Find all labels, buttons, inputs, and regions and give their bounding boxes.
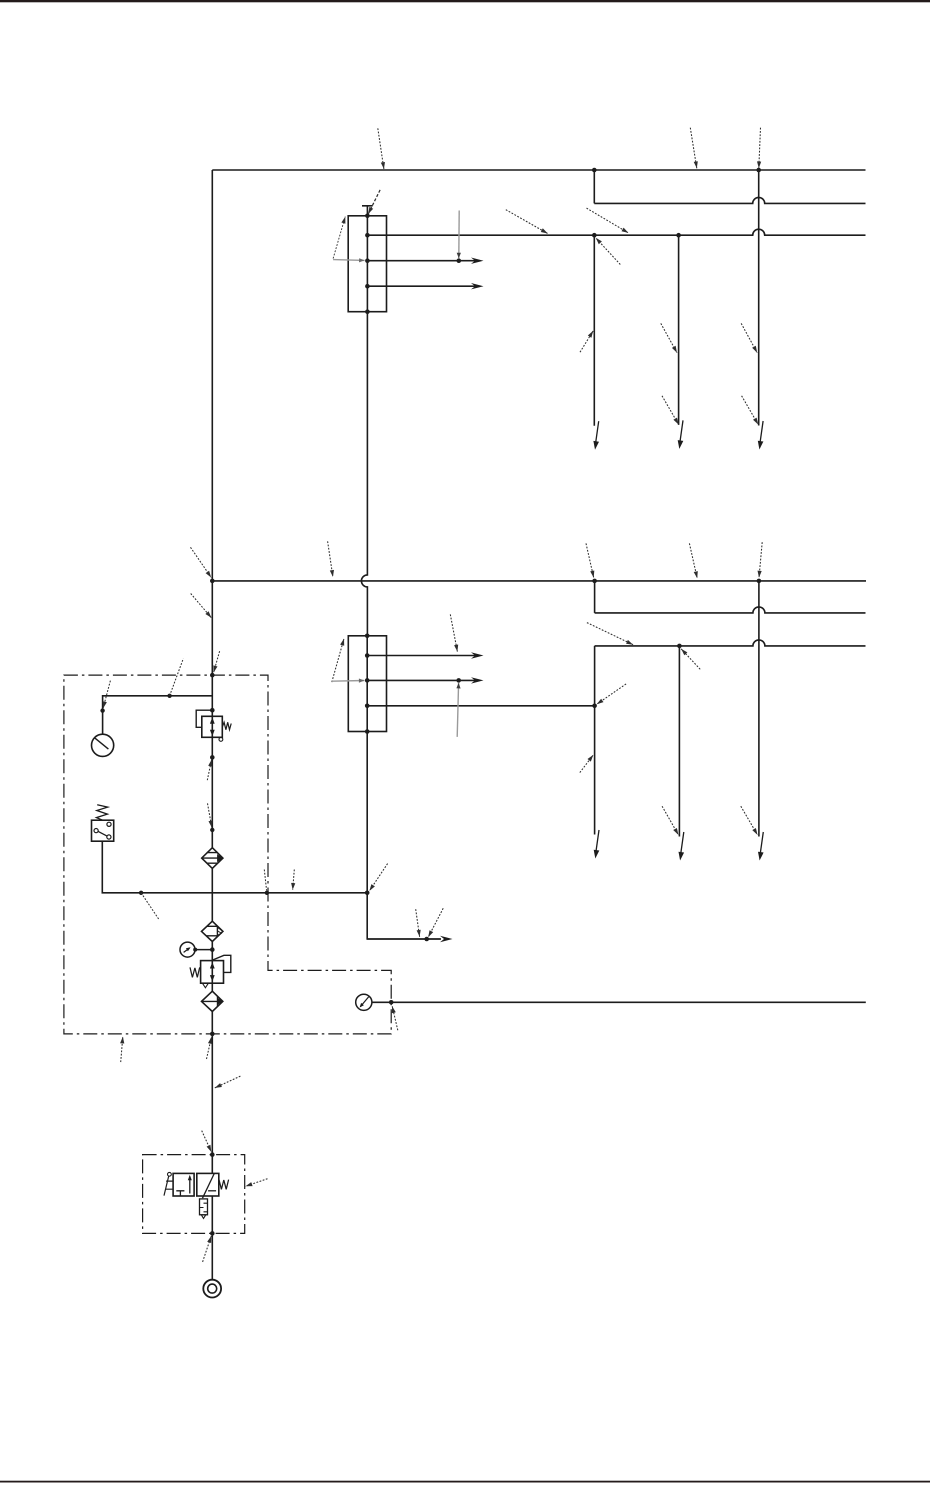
leader: callout to drop A2 (mid, up) [580, 331, 593, 352]
node: M2 port 2 [365, 678, 370, 683]
node: dist2 / drop E [677, 644, 682, 649]
leader: callout to drop C end [742, 396, 759, 425]
node: header1 / drop C junction [756, 168, 761, 173]
wire: drop line F [758, 581, 760, 837]
node: M2 port2 takeoff [456, 678, 461, 683]
leader: callout to enclosure bottom edge [121, 1037, 123, 1063]
leader: callout to riser dot below R1 [208, 803, 212, 827]
regulator R1 body [202, 716, 223, 737]
leader: callout to header2 (mid) [689, 543, 697, 578]
node: riser crosses enclosure bottom [210, 1032, 215, 1037]
arrow: port2 outlet [459, 260, 480, 262]
node: M1 port 1 [365, 233, 370, 238]
filter F3 (diamond with drain) [202, 991, 223, 1011]
valve V1 spring [219, 1180, 229, 1190]
node: M2 port 3 [365, 704, 370, 709]
pump box boundary (dash-dot) [143, 1155, 245, 1234]
leader: callout to header1 (left) [378, 128, 384, 169]
wire+arrow: M1 port3 outlet [367, 285, 479, 287]
node: regulator R1 outlet [210, 755, 215, 760]
page top border bar [0, 0, 930, 2]
leader: callout to outlet elbow line [416, 909, 420, 937]
leader: callout to pump box edge [246, 1179, 268, 1187]
node: M1 port 2 [365, 258, 370, 263]
leader: callout to riser above pump box [202, 1131, 212, 1152]
leader: callout to riser below header2 [191, 594, 212, 618]
arrow: outlet flow F [760, 832, 763, 854]
arrow: outlet flow G [440, 936, 453, 942]
node: leader dot on bypass (left) [139, 891, 143, 895]
leader: callout to drop B end [662, 396, 679, 425]
wire: M2 down gallery [366, 732, 368, 893]
arrow: M2 port2 outlet [459, 679, 480, 681]
node: riser / header2 junction [210, 579, 215, 584]
wire: sub-header 2 (hops drop F) [595, 607, 866, 613]
leader: callout to port3 tie-in node [597, 684, 626, 704]
node: port2 takeoff [457, 258, 462, 263]
regulator R2 spring [190, 967, 200, 977]
leader: callout from bypass dot [141, 893, 159, 920]
node: M1 port 3 [365, 284, 370, 289]
leader: callout to enclosure bottom node [207, 1037, 212, 1059]
filter F2 (diamond separator) [202, 921, 223, 941]
leader: callout to bypass dot [264, 870, 266, 891]
leader: callout to M1 body corner [333, 217, 345, 259]
leader: callout to header2 / drop F node [759, 542, 762, 577]
valve V1 exhaust muffler [200, 1199, 208, 1215]
leader: callout to outlet line node [392, 1006, 398, 1030]
wire: branch D down to sub-header 2 [594, 581, 596, 613]
wire: pressure switch to bypass [102, 841, 367, 893]
node: regulator R1 inlet [210, 708, 215, 713]
node: pump box inlet [210, 1152, 215, 1157]
manifold M1 plug cap [362, 206, 373, 216]
wire: drop line E [678, 646, 680, 837]
leader: callout to drop B (mid) [661, 323, 677, 352]
air intake silencer (double circle) [203, 1280, 221, 1298]
valve V1 left cell blocked port [176, 1191, 184, 1196]
leader: callout to M1 top node [368, 190, 380, 214]
regulator R1 spring [222, 722, 231, 729]
node: header2 / drop F junction [757, 579, 762, 584]
wire: drop line A2 [593, 235, 595, 426]
arrow: outlet flow E [681, 832, 684, 854]
valve V1 right cell flow path [203, 1174, 215, 1199]
wire: outlet drop with elbow [367, 893, 440, 939]
wire: M2 port2 stub [367, 679, 459, 681]
leader: callout to riser junction [191, 547, 212, 577]
leader: callout to header2 branch D node [586, 543, 594, 577]
wire: M1 port1 distribution line (hops drop C) [367, 229, 865, 235]
enclosure: pump unit boundary (dash-dot) [64, 675, 391, 1034]
leader: callout to outlet takeoff node [428, 908, 443, 937]
wire: M1 port2 stub [367, 260, 458, 262]
wire: gauge G2 stub [195, 949, 212, 951]
leader: callout to drop E node [681, 649, 700, 669]
node: drop D / M2 port3 tie-in [592, 704, 597, 709]
leader: callout to header2 (dashed) [328, 541, 333, 577]
leader: callout to drop E end [662, 806, 678, 835]
node: outlet line takeoff [424, 937, 429, 942]
leader: callout to header1 (right) [690, 128, 697, 169]
wire: gauge G1 branch [103, 696, 213, 734]
wire: distribution line 2 (hops drop F) [595, 640, 866, 646]
wire: main riser (pump to headers) [211, 170, 213, 1280]
leader: callout to bypass line [293, 870, 295, 890]
node: gauge G1 tee [100, 708, 104, 712]
node: M2 port 1 [365, 653, 370, 658]
pressure switch PS1 contacts [107, 822, 111, 826]
node: M1 bottom port [365, 309, 370, 314]
node: M1 top port [365, 214, 370, 219]
leader: callout to port1 line (left) [506, 210, 548, 234]
node: header1 branch A [592, 168, 597, 173]
leader: callout from gauge branch dot [170, 659, 184, 696]
node: pump box outlet [210, 1231, 215, 1236]
wire: branch A down to sub-header 1 [593, 170, 595, 203]
leader: callout to drop F end [741, 806, 758, 835]
wire: M2 port3 line to drop D [367, 705, 594, 707]
leader: callout to enclosure top node [214, 651, 220, 672]
leader: callout to port1 line (right) [587, 208, 629, 233]
regulator R1 pilot loop [196, 710, 212, 727]
regulator R2 flow arrows [210, 962, 215, 969]
wire: manifold M2 gallery [366, 636, 368, 732]
arrow: outlet flow B [680, 420, 683, 442]
leader: callout to pump box outlet node [203, 1236, 212, 1262]
pressure switch PS1 body [92, 820, 114, 841]
page bottom border line [0, 1481, 930, 1483]
gauge G2 (with tap) [180, 942, 195, 957]
wire: regulated outlet line [372, 1001, 866, 1003]
leader: callout to drop D (mid, up) [580, 755, 594, 773]
wire: sub-header 1 (hops drop C) [594, 197, 865, 203]
regulator R1 flow arrows [210, 717, 215, 724]
regulator R2 vent [202, 983, 208, 988]
node: header2 branch D [592, 579, 597, 584]
leader: callout rising to M2 port2 takeoff (gray) [457, 683, 458, 737]
leader: callout to drop C (mid) [741, 323, 757, 352]
arrow: outlet flow A2 [596, 421, 599, 443]
leader: callout to distribution line 2 [587, 623, 633, 645]
node: gallery / bypass junction [365, 891, 370, 896]
node: port1 line / drop A2 [592, 233, 597, 238]
leader: callout to drop A2 node [596, 238, 621, 265]
leader: callout to gauge G1 tee [103, 681, 110, 709]
wire: manifold M1 gallery [366, 216, 368, 312]
leader: callout to drop C node [759, 128, 761, 169]
arrow: outlet flow D [596, 830, 599, 852]
wire: supply header 1 [212, 169, 865, 171]
leader: callout to bypass junction node [369, 864, 387, 891]
pressure gauge G3 [356, 994, 372, 1010]
arrow: outlet flow C [760, 421, 763, 443]
pressure switch PS1 spring [96, 805, 107, 821]
regulator R1 vent [219, 738, 223, 742]
node: outlet line crosses enclosure edge [389, 1000, 394, 1005]
leader: callout to R1 outlet node [207, 760, 211, 781]
valve V1 right cell port tee [208, 1190, 216, 1192]
node: leader dot on gauge branch [167, 694, 171, 698]
pressure gauge G1 [92, 734, 114, 756]
regulator R2 body [201, 961, 224, 984]
manifold M2 body [348, 636, 386, 732]
leader: callout to M2 port1 outlet [450, 614, 457, 651]
node: leader dot on riser [210, 828, 214, 832]
manifold M1 body [348, 216, 386, 312]
wire: drop line C [758, 170, 760, 426]
valve V1 body (two positions) [173, 1173, 194, 1196]
wire: drop line B [678, 235, 680, 425]
node: M2 bottom port [365, 729, 370, 734]
leader: callout to M2 body corner [332, 639, 344, 683]
node: gauge G2 tee on riser [210, 947, 215, 952]
wire: drop line D [594, 646, 596, 835]
node: leader dot on bypass (right) [265, 891, 269, 895]
wire+arrow: M2 port1 outlet [367, 655, 479, 657]
wire: inter-manifold gallery (hops header 2) [361, 312, 367, 636]
filter F1 (diamond with element) [202, 848, 223, 869]
leader: callout to M1 port2 node (gray) [333, 259, 365, 262]
node: M2 top port [365, 634, 370, 639]
valve V1 left cell flow arrow [189, 1177, 191, 1194]
regulator R2 pilot loop [213, 955, 231, 972]
node: riser crosses enclosure top [210, 673, 215, 678]
node: port1 line / drop B [676, 233, 681, 238]
valve V1 manual lever [168, 1172, 172, 1176]
leader: callout to M2 port2 node (gray) [332, 680, 365, 683]
leader: callout drop to port2 takeoff (gray) [458, 211, 460, 259]
wire: supply header 2 [212, 580, 866, 582]
leader: callout to outlet pipe below enclosure [215, 1076, 241, 1088]
